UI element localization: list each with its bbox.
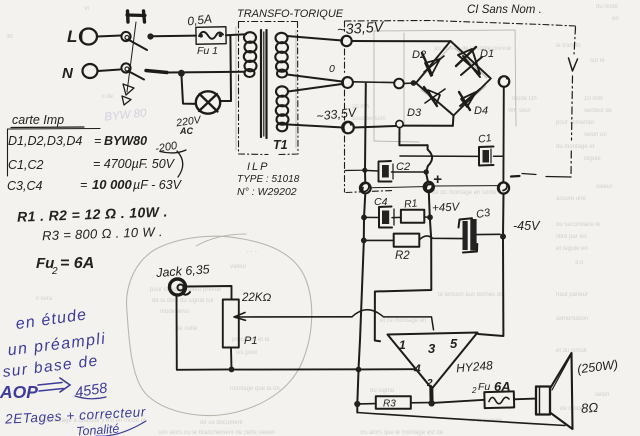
svg-text:Fu 1: Fu 1 bbox=[197, 45, 218, 57]
svg-text:alimentation: alimentation bbox=[556, 316, 588, 322]
capacitor C3 bbox=[463, 221, 468, 250]
junction dot lamp branch bbox=[178, 70, 185, 77]
svg-text:R3: R3 bbox=[383, 399, 396, 410]
svg-text:N° : W29202: N° : W29202 bbox=[237, 186, 297, 198]
node dot C2 left bbox=[362, 168, 367, 173]
diode D3 bbox=[428, 90, 440, 105]
pencil marks around transformer bbox=[236, 27, 296, 150]
svg-text:vis alors que le montage est d: vis alors que le montage est de bbox=[360, 430, 444, 436]
svg-text:~33,5V: ~33,5V bbox=[337, 19, 386, 38]
svg-text:en: en bbox=[612, 16, 619, 22]
svg-text:+45V: +45V bbox=[432, 201, 461, 214]
svg-text:valeur: valeur bbox=[230, 264, 246, 270]
C4 leads bbox=[364, 216, 401, 218]
rail continues down bbox=[364, 194, 365, 218]
svg-text:2: 2 bbox=[51, 266, 58, 277]
svg-text:6A: 6A bbox=[494, 379, 511, 394]
pilot lamp branch wire bbox=[182, 76, 197, 104]
svg-text:C4: C4 bbox=[374, 196, 388, 208]
svg-text:de cette: de cette bbox=[176, 326, 198, 332]
label minus bbox=[511, 175, 520, 178]
svg-text:3b: 3b bbox=[6, 34, 13, 40]
amplifier HY248 triangle bbox=[388, 333, 478, 389]
light link line through terminals bbox=[371, 186, 497, 188]
pencil curve near carte block bbox=[196, 234, 246, 246]
svg-text:WF seul: WF seul bbox=[508, 108, 530, 114]
speaker return wire bbox=[357, 413, 565, 426]
wire right node down to minus bbox=[502, 87, 504, 182]
stub to box edge bbox=[345, 169, 364, 171]
secondary taps to terminals bbox=[287, 36, 342, 41]
svg-text:TYPE : 51018: TYPE : 51018 bbox=[237, 174, 300, 185]
svg-text:du montage et: du montage et bbox=[556, 144, 595, 150]
svg-text:µF - 63V: µF - 63V bbox=[133, 178, 183, 192]
wire 0-terminal to bridge left bbox=[353, 81, 394, 84]
svg-text:R1: R1 bbox=[404, 197, 418, 210]
svg-text:+: + bbox=[433, 171, 442, 188]
svg-text:AC: AC bbox=[179, 126, 193, 136]
svg-text:C3,C4: C3,C4 bbox=[7, 179, 42, 193]
svg-text:D2: D2 bbox=[412, 49, 426, 61]
transformer secondary upper bbox=[275, 33, 288, 78]
svg-text:=: = bbox=[94, 134, 101, 148]
capacitor C1 bbox=[479, 147, 494, 166]
svg-text:de la dont du signal sur: de la dont du signal sur bbox=[152, 298, 214, 304]
svg-text:du signal: du signal bbox=[370, 388, 394, 394]
rail down to bottom bbox=[359, 242, 364, 369]
0V output terminal bbox=[360, 183, 371, 194]
resistor R2 bbox=[394, 234, 420, 247]
plus rail vertical bbox=[375, 192, 432, 341]
pilot lamp bbox=[196, 91, 220, 113]
lamp to L-line wire bbox=[221, 36, 232, 101]
switch actuator bar bbox=[127, 13, 145, 17]
svg-text:=: = bbox=[80, 178, 87, 192]
node dot C4 left bbox=[361, 215, 367, 221]
minus terminal bbox=[498, 182, 509, 193]
bridge right terminal circle bbox=[499, 76, 510, 87]
actuator arrow triangles bbox=[123, 84, 134, 95]
svg-text:selon un: selon un bbox=[584, 132, 607, 138]
svg-text:sur le: sur le bbox=[590, 58, 605, 64]
svg-text:valeur: valeur bbox=[596, 184, 612, 190]
svg-text:0: 0 bbox=[329, 63, 335, 75]
pencil construction rect around bridge bbox=[374, 30, 516, 141]
svg-text:. . .: . . . bbox=[246, 245, 257, 254]
svg-text:du secondaire le: du secondaire le bbox=[556, 222, 601, 228]
output wire to fuse bbox=[435, 400, 485, 403]
svg-text:les pour: les pour bbox=[236, 350, 257, 356]
0V rail from centre tap bbox=[364, 84, 367, 171]
node dot C3 to rail bbox=[500, 234, 506, 240]
bridge bottom stub bbox=[452, 116, 455, 126]
bridge diamond edges bbox=[416, 41, 491, 116]
svg-text:3: 3 bbox=[428, 341, 436, 356]
wire fuse to transformer primary bbox=[226, 34, 246, 35]
wire top tap to bridge top node bbox=[352, 40, 451, 42]
svg-text:il de: il de bbox=[102, 94, 114, 100]
svg-text:4: 4 bbox=[413, 362, 421, 376]
CI dash-dot box right edge with arrowhead bbox=[574, 27, 576, 55]
svg-text:L: L bbox=[67, 27, 77, 46]
input wire to pin 4 bbox=[232, 368, 415, 370]
svg-text:C2: C2 bbox=[396, 161, 410, 173]
svg-text:R2: R2 bbox=[395, 250, 410, 262]
wire bottom tap to bridge bottom bbox=[354, 126, 396, 128]
svg-text:CI Sans Nom .: CI Sans Nom . bbox=[467, 4, 542, 16]
svg-text:AOP: AOP bbox=[0, 382, 38, 402]
crossing loop on AC wire bbox=[396, 120, 403, 127]
svg-text:D3: D3 bbox=[407, 107, 422, 119]
svg-text:8Ω: 8Ω bbox=[581, 400, 599, 416]
hop bump over C1 lead bbox=[426, 145, 432, 172]
svg-text:VI: VI bbox=[84, 6, 90, 12]
svg-text:son alors ou le branchement de: son alors ou le branchement de cette val… bbox=[158, 430, 275, 436]
wire to fuse Fu1 bbox=[153, 35, 196, 38]
diode D4 bbox=[461, 92, 476, 107]
svg-text:et ce montage en: et ce montage en bbox=[380, 318, 426, 324]
rail to R2 row bbox=[363, 219, 365, 240]
svg-text:pour alimenter: pour alimenter bbox=[556, 120, 594, 126]
svg-text:montage que la on: montage que la on bbox=[230, 386, 280, 392]
spec bracket bbox=[8, 129, 101, 177]
svg-text:P1: P1 bbox=[244, 335, 257, 347]
wire fuse to speaker bbox=[514, 398, 536, 401]
resistor R3 bbox=[376, 396, 411, 409]
jack to P1 top bbox=[186, 286, 232, 300]
actuator linkage line bbox=[127, 22, 136, 92]
svg-text:2: 2 bbox=[426, 378, 433, 389]
transformer secondary lower bbox=[276, 86, 289, 131]
svg-text:selon: selon bbox=[595, 392, 609, 398]
CI dash-dot box left edge bbox=[344, 21, 346, 192]
capacitor C4 bbox=[379, 207, 392, 228]
svg-text:= 6A: = 6A bbox=[60, 255, 94, 272]
svg-text:la tension aux bornes du: la tension aux bornes du bbox=[438, 292, 503, 298]
switch pole 1 pivot bbox=[121, 32, 130, 41]
svg-text:D1,D2,D3,D4: D1,D2,D3,D4 bbox=[8, 134, 82, 148]
svg-text:assure une: assure une bbox=[556, 196, 586, 202]
jack sleeve down bbox=[177, 296, 232, 370]
resistor R1 bbox=[401, 210, 424, 223]
C3 right lead bbox=[477, 233, 500, 235]
bridge left terminal circle bbox=[394, 79, 404, 89]
potentiometer P1 bbox=[223, 300, 239, 348]
svg-text:de ce document: de ce document bbox=[200, 420, 243, 426]
svg-text:T1: T1 bbox=[273, 138, 288, 152]
svg-text:filtre par les: filtre par les bbox=[556, 234, 587, 240]
svg-text:2: 2 bbox=[471, 386, 477, 395]
transformer dash-dot enclosure bbox=[239, 22, 299, 155]
svg-text:regule: regule bbox=[584, 156, 601, 162]
wire L to switch bbox=[97, 36, 121, 37]
svg-text:-45V: -45V bbox=[513, 219, 541, 233]
svg-text:C1,C2: C1,C2 bbox=[8, 158, 43, 172]
fuse Fu1 box bbox=[196, 27, 226, 45]
terminal ~33,5V top bbox=[341, 36, 351, 46]
svg-text:5: 5 bbox=[450, 336, 458, 351]
terminal 0 (centre tap) bbox=[342, 77, 353, 88]
jack socket symbol bbox=[170, 279, 186, 295]
svg-text:N: N bbox=[62, 65, 74, 82]
wire N to transformer bbox=[146, 71, 167, 73]
diode D2 bbox=[425, 59, 440, 76]
C1 leads bbox=[400, 155, 504, 157]
svg-text:le transfo: le transfo bbox=[556, 43, 581, 49]
loudspeaker bbox=[536, 387, 550, 415]
svg-text:1: 1 bbox=[399, 338, 406, 352]
svg-text:sous tension: sous tension bbox=[352, 116, 386, 122]
svg-text:du reste: du reste bbox=[596, 4, 618, 10]
svg-text:ILP: ILP bbox=[247, 161, 270, 173]
svg-text:C1: C1 bbox=[477, 132, 492, 146]
svg-text:mode ainsi: mode ainsi bbox=[160, 309, 189, 315]
wire loop down to plus chain bbox=[399, 128, 427, 146]
svg-text:0,5A: 0,5A bbox=[186, 12, 212, 29]
transformer core bbox=[261, 30, 267, 138]
node dot P1 bottom bbox=[229, 367, 235, 373]
svg-text:TRANSFO-TORIQUE: TRANSFO-TORIQUE bbox=[237, 8, 344, 20]
node dot R3 left bbox=[354, 401, 360, 407]
diode D1 bbox=[458, 49, 480, 74]
wire N to switch bbox=[98, 70, 120, 72]
svg-text:de du montage en sortie: de du montage en sortie bbox=[432, 190, 497, 196]
svg-text:haut parleur: haut parleur bbox=[556, 292, 588, 298]
plus terminal bbox=[424, 182, 434, 192]
svg-text:= 4700µF. 50V: = 4700µF. 50V bbox=[93, 157, 176, 171]
node dot after switch 1 bbox=[147, 33, 153, 39]
pencil diagonals under bridge diamond bbox=[420, 46, 487, 112]
minus rail down bbox=[502, 194, 505, 236]
pencil sketch blob around jack input area bbox=[127, 236, 312, 415]
svg-text:Fu: Fu bbox=[478, 381, 490, 393]
svg-text:10 000: 10 000 bbox=[92, 177, 133, 192]
svg-text:BYW80: BYW80 bbox=[104, 134, 147, 148]
CI dash-dot box top edge bbox=[345, 21, 576, 27]
terminal L bbox=[80, 29, 97, 45]
svg-text:D1: D1 bbox=[480, 48, 494, 60]
svg-text:et regule en: et regule en bbox=[556, 246, 588, 252]
svg-text:secteur de: secteur de bbox=[584, 108, 613, 114]
switch blade 1 bbox=[129, 40, 147, 50]
svg-text:10 mW: 10 mW bbox=[584, 96, 603, 102]
svg-text:carte Imp: carte Imp bbox=[12, 113, 64, 127]
node dot bridge left bbox=[411, 80, 417, 86]
CI dash-dot box bottom edges bbox=[522, 174, 571, 178]
svg-text:D4: D4 bbox=[474, 105, 488, 117]
transformer primary winding bbox=[244, 32, 257, 77]
switch blade 2 bbox=[129, 72, 144, 80]
switch pole 2 pivot bbox=[121, 63, 130, 72]
node dot input wire crossing bbox=[356, 367, 362, 373]
apex junction blob bbox=[429, 388, 433, 403]
node dot R2 left bbox=[361, 238, 367, 244]
svg-text:3.0: 3.0 bbox=[575, 260, 584, 266]
C2 leads bbox=[365, 170, 427, 172]
svg-text:22KΩ: 22KΩ bbox=[241, 292, 271, 304]
node dot C2 right bbox=[424, 169, 429, 174]
svg-text:il sera: il sera bbox=[36, 296, 53, 302]
wiper input wire with hop bbox=[234, 313, 352, 321]
fuse Fu2 box bbox=[484, 391, 514, 408]
capacitor C2 bbox=[379, 161, 392, 182]
node dot R1 right bbox=[427, 214, 433, 220]
terminal N bbox=[83, 64, 98, 78]
svg-text:Tonalité: Tonalité bbox=[76, 422, 120, 436]
terminal ~33,5V bottom bbox=[342, 122, 354, 134]
